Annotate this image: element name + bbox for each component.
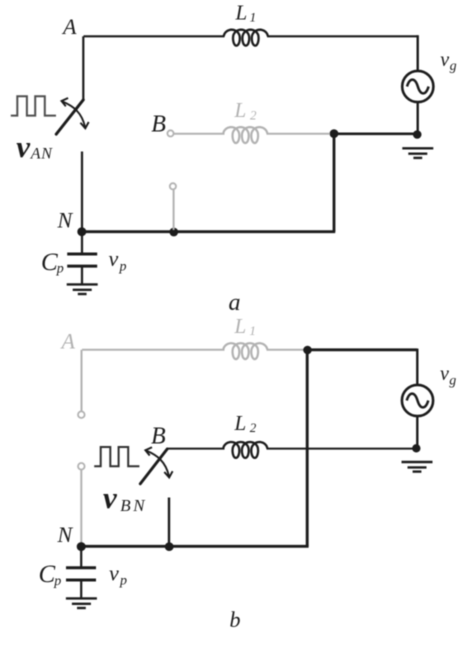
- svg-text:v: v: [440, 363, 449, 385]
- square-wave symbol vBN (fig b): [94, 447, 139, 466]
- open terminal circle A-side (fig b): [78, 411, 85, 418]
- svg-text:p: p: [56, 262, 64, 277]
- switch blade vAN (fig a): [56, 100, 83, 134]
- gray wire B to L2 (fig a): [174, 133, 225, 135]
- wire corner down to vg (fig a): [417, 35, 419, 71]
- svg-text:A: A: [60, 329, 76, 354]
- svg-text:v: v: [109, 246, 119, 271]
- inductor L1 (fig a): [224, 30, 268, 46]
- gray wire A down to open terminal (fig b): [81, 350, 83, 412]
- svg-text:L: L: [234, 314, 247, 338]
- svg-text:N: N: [57, 522, 74, 547]
- switch blade vBN (fig b): [140, 449, 167, 484]
- svg-text:a: a: [229, 290, 241, 316]
- wire vg to ground junction (fig b): [416, 416, 418, 449]
- svg-text:p: p: [119, 574, 127, 589]
- wire N to capacitor Cp (fig b): [80, 547, 82, 567]
- wire L2 to vg bottom (fig b): [267, 448, 417, 450]
- wire corner down to vg (fig b): [416, 349, 418, 385]
- svg-text:v: v: [109, 560, 119, 585]
- inductor L2 (fig b): [223, 442, 267, 458]
- svg-text:A: A: [30, 145, 41, 162]
- wire junction to vg-bottom (fig a): [334, 133, 418, 136]
- ground under Cp (fig a): [67, 284, 98, 294]
- svg-text:N: N: [40, 145, 53, 162]
- svg-text:v: v: [440, 49, 449, 71]
- wire N to capacitor Cp (fig a): [81, 232, 83, 253]
- gray wire L2 to junction (fig a): [267, 133, 331, 135]
- open terminal circle N-side (fig b): [78, 463, 85, 470]
- svg-text:g: g: [449, 373, 456, 388]
- svg-text:N: N: [57, 207, 74, 232]
- capacitor Cp (fig a): [67, 254, 97, 266]
- switch toggle arrow (fig b): [145, 447, 172, 477]
- junction dot mid bottom wire (fig b): [165, 542, 174, 551]
- wire junction to top-right corner (fig b): [308, 348, 418, 351]
- junction dot mid bottom wire (fig a): [169, 228, 178, 237]
- svg-text:N: N: [132, 496, 146, 515]
- junction dot L2 right (fig a): [330, 129, 339, 138]
- wire A down to switch (fig a): [82, 36, 84, 99]
- switch toggle arrow (fig a): [62, 98, 89, 128]
- svg-text:L: L: [235, 0, 248, 24]
- ground under vg (fig a): [402, 148, 433, 158]
- svg-text:1: 1: [250, 9, 257, 24]
- svg-text:2: 2: [250, 420, 257, 435]
- vertical wire right branch (fig a): [333, 134, 336, 232]
- svg-text:C: C: [41, 249, 58, 276]
- svg-text:B: B: [151, 423, 166, 449]
- svg-text:B: B: [151, 111, 166, 137]
- open terminal circle on stub (fig a): [170, 183, 176, 189]
- svg-text:B: B: [120, 496, 131, 515]
- vertical wire right branch (fig b): [306, 350, 309, 546]
- svg-text:L: L: [234, 411, 247, 435]
- inductor L2 gray (fig a): [223, 127, 267, 143]
- svg-text:1: 1: [249, 323, 256, 338]
- open terminal circle at B (fig a): [167, 130, 173, 136]
- svg-text:v: v: [103, 480, 118, 515]
- junction dot at N (fig a): [77, 227, 86, 236]
- ground under Cp (fig b): [66, 598, 97, 608]
- svg-text:p: p: [119, 259, 127, 274]
- svg-text:L: L: [234, 98, 247, 122]
- wire B to L2 (fig b): [167, 448, 225, 450]
- bottom wire N to right (fig a): [82, 230, 335, 233]
- gray wire open terminal to N (fig b): [80, 470, 82, 546]
- svg-text:v: v: [16, 129, 31, 164]
- junction dot at vg bottom (fig a): [413, 130, 422, 139]
- wire switch to node N (fig b): [168, 498, 170, 547]
- wire switch to node N (fig a): [81, 152, 83, 232]
- wire L1 to top-right corner (fig a): [267, 35, 418, 37]
- wire Cp to ground (fig a): [81, 267, 83, 285]
- square-wave symbol vAN (fig a): [11, 96, 56, 115]
- ac source vg (fig a): [402, 71, 433, 102]
- wire A to L1 (fig a): [84, 35, 225, 37]
- gray stub wire above mid dot (fig a): [173, 189, 175, 230]
- junction dot L1 right (fig b): [303, 346, 312, 355]
- svg-text:b: b: [230, 607, 241, 632]
- wire vg to ground junction (fig a): [417, 102, 419, 135]
- wire Cp to ground (fig b): [80, 580, 82, 598]
- svg-text:g: g: [450, 59, 457, 74]
- ac source vg (fig b): [402, 385, 433, 416]
- capacitor Cp (fig b): [66, 568, 96, 580]
- inductor L1 gray (fig b): [223, 343, 267, 359]
- svg-text:A: A: [61, 14, 77, 39]
- junction dot at vg bottom (fig b): [412, 444, 420, 452]
- gray wire L1 to junction (fig b): [267, 349, 305, 351]
- svg-text:2: 2: [250, 108, 257, 123]
- junction dot at N (fig b): [77, 542, 86, 551]
- bottom wire N to right (fig b): [81, 545, 308, 548]
- ground under vg (fig b): [402, 462, 433, 472]
- svg-text:C: C: [39, 561, 56, 588]
- gray wire A to L1 (fig b): [82, 349, 225, 351]
- svg-text:p: p: [53, 574, 61, 589]
